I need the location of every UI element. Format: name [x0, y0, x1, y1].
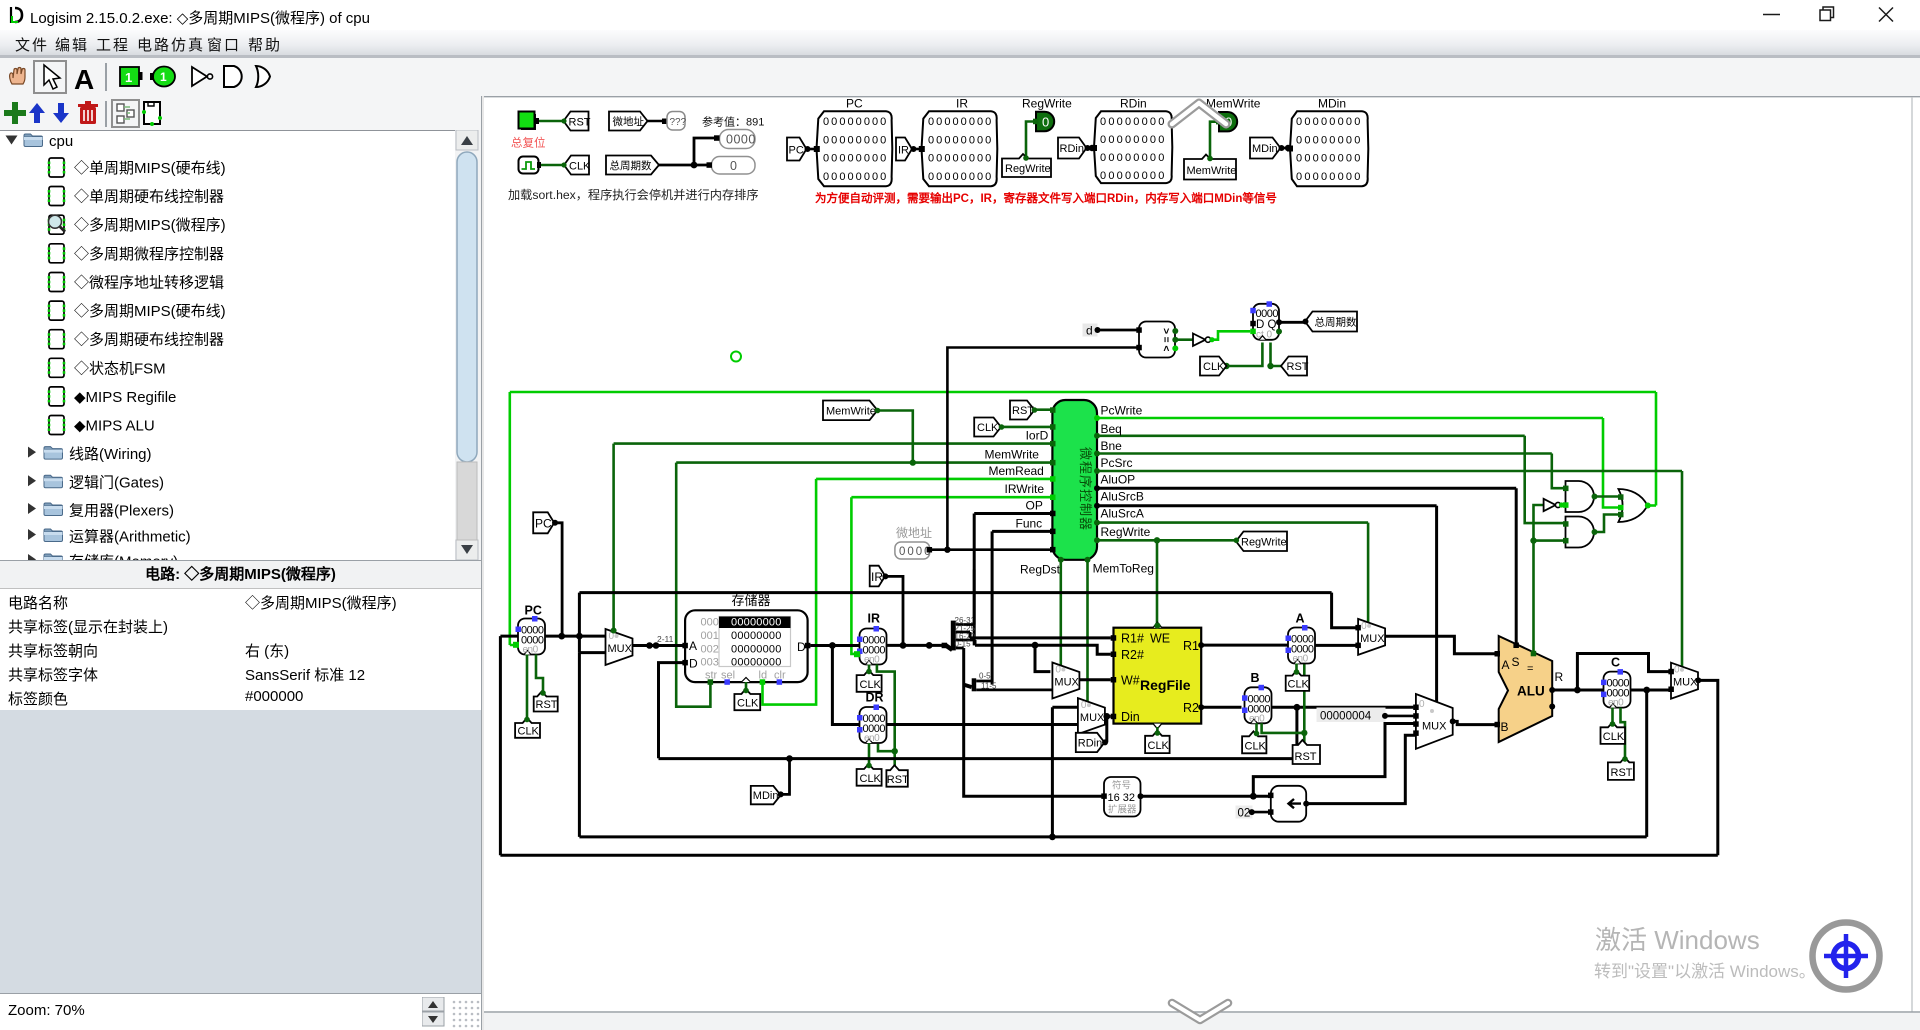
label CLK (controller): [1001, 426, 1052, 429]
svg-text:◇多周期硬布线控制器: ◇多周期硬布线控制器: [74, 332, 224, 349]
memory clk wire + label: [745, 682, 748, 694]
PC pin tunnel: [787, 138, 815, 161]
wire ALU = up to gates: [1534, 505, 1566, 654]
svg-text:PcWrite: PcWrite: [1101, 404, 1143, 418]
svg-text:00000000: 00000000: [928, 135, 993, 147]
svg-text:微地址: 微地址: [896, 526, 932, 540]
svg-text:逻辑门(Gates): 逻辑门(Gates): [69, 475, 164, 492]
svg-text:◇状态机FSM: ◇状态机FSM: [74, 360, 166, 377]
probe ???: [667, 112, 687, 131]
wire IR tunnel to IR row: [885, 576, 903, 645]
svg-text:OP: OP: [1026, 499, 1043, 513]
counter register: [1250, 301, 1279, 340]
svg-text:CLK: CLK: [1603, 731, 1625, 743]
wire AluSrcB (black, y506): [1097, 506, 1437, 702]
probe 0000: [720, 130, 756, 149]
svg-text:激活 Windows: 激活 Windows: [1595, 925, 1760, 955]
svg-text:RegDst: RegDst: [1020, 562, 1061, 576]
svg-text:A: A: [689, 639, 697, 653]
svg-text:总周期数: 总周期数: [610, 159, 652, 172]
svg-text:RDin: RDin: [1060, 143, 1084, 155]
memory pins: [682, 643, 688, 649]
svg-text:A: A: [1296, 612, 1305, 626]
svg-text:11-5: 11-5: [981, 682, 997, 691]
svg-text:WE: WE: [1150, 632, 1170, 646]
wire regwrite led: [1026, 122, 1036, 159]
NOT gate (counter): [1175, 338, 1193, 341]
wire R2 to B: [1201, 706, 1241, 709]
svg-text:AluOP: AluOP: [1101, 472, 1136, 486]
tree scrollbar: [455, 130, 481, 560]
CANVAS SVG: [484, 96, 1920, 1030]
wire uaddr row (black): [930, 348, 1139, 550]
wires cycle counter probes: [659, 138, 717, 165]
MDin display matrix: [1287, 111, 1368, 186]
svg-text:CLK: CLK: [1245, 741, 1267, 753]
svg-text:00000000: 00000000: [928, 153, 993, 165]
wire A out: [1315, 644, 1356, 647]
wire OP (black): [974, 514, 1052, 646]
svg-text:运算器(Arithmetic): 运算器(Arithmetic): [69, 528, 191, 546]
wire down to DR: [832, 646, 859, 725]
splitter2: [964, 685, 972, 688]
canvas frame: [484, 96, 1920, 1030]
wire DR out row: [887, 723, 1078, 726]
svg-text:CLK: CLK: [1148, 740, 1170, 752]
svg-text:0: 0: [730, 159, 737, 173]
svg-text:CLK: CLK: [977, 422, 999, 434]
wire MemRead (bright, y479) to memory ld: [763, 479, 1053, 705]
label CLK (B): [1242, 731, 1266, 754]
tunnel 总周期数: [606, 156, 659, 175]
mux W# (RegDst): [1052, 663, 1079, 699]
wire IR out row: [887, 644, 946, 647]
svg-text:A: A: [1502, 658, 1510, 672]
svg-text:复用器(Plexers): 复用器(Plexers): [69, 502, 174, 520]
wire PcWrite-enable loop (bright, y392): [510, 392, 1656, 645]
label RST (counter): [1271, 343, 1282, 367]
svg-text:转到"设置"以激活 Windows。: 转到"设置"以激活 Windows。: [1594, 962, 1816, 981]
label RST (pc): [534, 690, 558, 711]
svg-text:001: 001: [701, 630, 719, 642]
svg-text:00000000: 00000000: [823, 171, 888, 183]
svg-text:0000: 0000: [726, 133, 756, 147]
sign extender: [1104, 777, 1141, 817]
svg-text:RST: RST: [887, 774, 909, 786]
d input: [1083, 324, 1098, 337]
wire PcWrite out to OR (bright, y418): [1097, 418, 1620, 508]
wire mem D input from bus758: [659, 663, 686, 759]
svg-text:00000000: 00000000: [1100, 170, 1167, 182]
svg-text:参考值：891: 参考值：891: [702, 115, 764, 129]
svg-text:0: 0: [1419, 699, 1425, 710]
NOT gate (gates): [1544, 499, 1556, 511]
svg-text:CLK: CLK: [737, 698, 759, 710]
wire Cmux out loop (busQ): [500, 636, 1717, 855]
svg-text:IR: IR: [956, 97, 968, 111]
svg-text:Beq: Beq: [1101, 422, 1122, 436]
svg-text:◆MIPS Regifile: ◆MIPS Regifile: [74, 389, 176, 406]
svg-text:CLK: CLK: [860, 773, 882, 785]
wire RegWrite (dark, y540): [1097, 540, 1236, 627]
wire AluOP (black, y488): [1097, 488, 1516, 646]
svg-text:AluSrcB: AluSrcB: [1101, 490, 1144, 504]
svg-text:加载sort.hex，程序执行会停机并进行内存排序: 加载sort.hex，程序执行会停机并进行内存排序: [508, 187, 759, 202]
svg-text:RDin: RDin: [1078, 738, 1102, 750]
svg-text:00000000: 00000000: [823, 135, 888, 147]
label RST (DR): [886, 765, 909, 787]
svg-text:=: =: [1527, 663, 1533, 675]
wire mux out to mem A: [633, 644, 688, 647]
menu bar: [0, 30, 1920, 55]
OR gate: [1618, 489, 1647, 522]
IR/DR en-RST green chain: [877, 665, 895, 771]
svg-text:RST: RST: [1611, 767, 1633, 779]
svg-text:MemRead: MemRead: [989, 464, 1044, 478]
svg-text:存储器: 存储器: [732, 593, 771, 608]
B clk + en wires: [1257, 662, 1305, 745]
svg-text:W#: W#: [1121, 674, 1140, 688]
label RegWrite: [1002, 154, 1051, 177]
wire C out: [1631, 690, 1671, 837]
wire R1 to A: [1201, 644, 1288, 647]
controller pin name texts: [985, 404, 1154, 577]
ALU: [1499, 636, 1564, 742]
wire Amux out to ALU A: [1385, 636, 1496, 654]
svg-text:RST: RST: [1287, 361, 1309, 373]
svg-text:16 32: 16 32: [1108, 792, 1136, 804]
RDin display matrix: [1091, 111, 1172, 183]
label CLK (pc): [515, 717, 540, 738]
wire Wmux out: [1079, 678, 1110, 681]
wire to probe: [648, 120, 667, 122]
tunnel IR: [870, 566, 889, 587]
shifter: [1271, 786, 1306, 822]
svg-text:=: =: [1160, 337, 1171, 343]
top chevron overlay: [1172, 103, 1226, 124]
label CLK: [561, 156, 591, 175]
wire Beq (dark, y436): [1097, 436, 1568, 523]
svg-text:MDin: MDin: [1318, 97, 1346, 111]
svg-text:◇多周期微程序控制器: ◇多周期微程序控制器: [74, 246, 224, 263]
svg-text:R1#: R1#: [1121, 632, 1144, 646]
microprogram controller: [1052, 400, 1097, 560]
bottom chevron overlay: [1172, 1003, 1228, 1020]
controller right pin dots: [1094, 415, 1100, 421]
svg-text:IR: IR: [868, 612, 881, 626]
mux B4: [1416, 694, 1453, 749]
svg-text:RST: RST: [1295, 751, 1317, 763]
svg-text:总周期数: 总周期数: [1315, 316, 1357, 329]
svg-text:D: D: [689, 657, 698, 671]
svg-text:B: B: [1501, 720, 1509, 734]
svg-text:RST: RST: [1012, 405, 1034, 417]
AND gate 2: [1566, 517, 1595, 548]
svg-text:PC: PC: [525, 604, 542, 618]
svg-text:微地址: 微地址: [613, 115, 645, 128]
wire Dinmux in1 vertical to busP: [1052, 707, 1078, 837]
wire field 21-25 to R1#: [969, 632, 1111, 638]
wire field 16-20 to R2#: [975, 640, 1111, 654]
comparator: [1139, 322, 1175, 358]
svg-text:RegWrite: RegWrite: [1241, 537, 1287, 549]
label RST (A/B): [1293, 740, 1320, 764]
svg-text:00000000: 00000000: [1296, 171, 1363, 183]
wire PC clk rst: [527, 655, 543, 720]
label MemWrite: [1184, 155, 1236, 180]
svg-text:00000000: 00000000: [731, 657, 782, 669]
svg-text:R2#: R2#: [1121, 648, 1144, 662]
stray green circle: [731, 352, 741, 362]
svg-text:RegWrite: RegWrite: [1022, 97, 1072, 111]
svg-text:Func: Func: [1016, 516, 1043, 530]
label RDin (regfile): [1076, 733, 1108, 752]
svg-text:MemWrite: MemWrite: [1206, 97, 1261, 111]
svg-text:◇多周期MIPS(硬布线): ◇多周期MIPS(硬布线): [74, 303, 226, 320]
wire PC tunnel down: [554, 523, 562, 636]
svg-text:IRWrite: IRWrite: [1005, 482, 1045, 496]
svg-text:线路(Wiring): 线路(Wiring): [69, 446, 152, 463]
wire Bmux out to ALU B: [1453, 721, 1497, 724]
svg-text:RegWrite: RegWrite: [1101, 525, 1151, 539]
svg-text:◇单周期MIPS(硬布线): ◇单周期MIPS(硬布线): [74, 160, 226, 177]
wire B out row + loop: [659, 707, 1414, 758]
toolbars: [0, 58, 1920, 96]
svg-text:MemWrite: MemWrite: [985, 447, 1040, 461]
wire Func (black): [992, 531, 1052, 684]
svg-text:00000000: 00000000: [823, 116, 888, 128]
svg-text:微程序控制器: 微程序控制器: [1078, 447, 1093, 531]
svg-text:???: ???: [670, 117, 687, 128]
svg-text:00000000: 00000000: [823, 153, 888, 165]
wire counter Q out: [1279, 321, 1306, 324]
svg-text:AluSrcA: AluSrcA: [1101, 506, 1144, 520]
wire ALU R to C: [1552, 654, 1673, 691]
svg-text:d: d: [1086, 324, 1093, 338]
svg-text:RST: RST: [536, 699, 558, 711]
svg-text:00000000: 00000000: [928, 116, 993, 128]
svg-text:0-15: 0-15: [955, 640, 972, 649]
reset input pin: [519, 112, 540, 131]
mux PC: [606, 629, 633, 665]
svg-text:RegFile: RegFile: [1140, 677, 1191, 693]
probe 0: [712, 157, 756, 175]
svg-text:cpu: cpu: [49, 133, 73, 150]
wire rst: [539, 120, 564, 123]
svg-text:A: A: [74, 64, 94, 95]
svg-text:S: S: [1512, 655, 1520, 669]
RegFile clk wire + label: [1156, 727, 1159, 736]
svg-text:00000000: 00000000: [731, 617, 782, 629]
A clk wire + label: [1295, 664, 1298, 676]
svg-text:扩展器: 扩展器: [1108, 804, 1137, 816]
svg-text:DR: DR: [866, 691, 884, 705]
svg-text:IR: IR: [898, 145, 909, 157]
svg-text:PC: PC: [789, 145, 804, 157]
svg-text:2-11: 2-11: [657, 634, 674, 644]
svg-text:CLK: CLK: [518, 726, 540, 738]
svg-text:PC: PC: [535, 517, 552, 531]
wire RegDst drop: [1060, 560, 1063, 666]
svg-text:02: 02: [1238, 808, 1251, 820]
svg-text:003: 003: [701, 657, 719, 669]
AND gate 1: [1566, 481, 1595, 512]
svg-text:00000000: 00000000: [731, 643, 782, 655]
controller bottom pins: [1058, 557, 1064, 563]
svg-text:0: 0: [1042, 115, 1049, 130]
svg-text:00000000: 00000000: [1296, 135, 1363, 147]
svg-text:ALU: ALU: [1517, 684, 1545, 699]
wire IRWrite (bright, y497) to IR.en: [851, 497, 1052, 654]
circuit header + properties: [0, 560, 481, 589]
svg-text:R: R: [1555, 670, 1564, 684]
svg-text:符号: 符号: [1112, 780, 1131, 792]
svg-text:RST: RST: [569, 117, 591, 129]
svg-text:00000004: 00000004: [1320, 711, 1372, 723]
wire mem D out row y645.5: [810, 644, 859, 647]
svg-text:为方便自动评测，需要输出PC，IR，寄存器文件写入端口RDi: 为方便自动评测，需要输出PC，IR，寄存器文件写入端口RDin，内存写入端口MD…: [815, 191, 1277, 205]
svg-text:MemWrite: MemWrite: [1187, 165, 1237, 177]
svg-text:总复位: 总复位: [511, 136, 546, 150]
svg-text:<: <: [1160, 345, 1171, 351]
svg-text:00000000: 00000000: [1296, 116, 1363, 128]
svg-text:C: C: [1611, 656, 1620, 670]
title bar: [0, 0, 1920, 30]
mux Din (MemToReg): [1078, 698, 1105, 734]
label CLK (counter): [1227, 343, 1263, 367]
label RST (C): [1608, 756, 1634, 780]
svg-text:00000000: 00000000: [731, 630, 782, 642]
svg-text:Bne: Bne: [1101, 439, 1123, 453]
left tree panel: [0, 130, 481, 560]
svg-text:0-5: 0-5: [979, 672, 991, 681]
svg-text:◆MIPS ALU: ◆MIPS ALU: [74, 418, 155, 435]
mux A: [1358, 619, 1385, 655]
wire AluSrcA (dark, y523): [1097, 523, 1368, 623]
IR pin tunnel: [896, 138, 921, 161]
svg-text:R2: R2: [1183, 701, 1199, 715]
svg-text:000: 000: [701, 617, 719, 629]
wire to Wmux in1: [1035, 645, 1050, 671]
const 02: [1236, 806, 1253, 819]
label RST (controller): [1034, 408, 1052, 411]
svg-text:◇多周期MIPS(微程序): ◇多周期MIPS(微程序): [74, 217, 226, 234]
wire signext out: [1141, 724, 1416, 797]
wire PcSrc (dark, y471): [1097, 471, 1682, 667]
svg-text:00000000: 00000000: [1296, 153, 1363, 165]
wire field 0-15 down to signext: [964, 648, 1102, 796]
svg-text:MDin: MDin: [1252, 143, 1278, 155]
PC display matrix: [814, 97, 893, 187]
mux C (PcSrc): [1671, 663, 1698, 699]
svg-text:IorD: IorD: [1026, 428, 1049, 442]
svg-text:CLK: CLK: [1288, 679, 1310, 691]
svg-text:◇单周期硬布线控制器: ◇单周期硬布线控制器: [74, 189, 224, 206]
C clk + en wires: [1613, 708, 1626, 763]
svg-text:RDin: RDin: [1120, 97, 1147, 111]
svg-text:PcSrc: PcSrc: [1101, 456, 1133, 470]
label MDin (bottom): [781, 759, 790, 795]
wire PC row y636: [500, 636, 605, 653]
tunnel 总周期数 (counter): [1303, 312, 1358, 332]
svg-text:MemToReg: MemToReg: [1093, 562, 1154, 576]
svg-text:Din: Din: [1121, 710, 1140, 724]
bus P (C result): [579, 653, 1646, 837]
svg-text:CLK: CLK: [1203, 361, 1225, 373]
splitter IR fields: [946, 645, 953, 650]
svg-text:00000000: 00000000: [928, 171, 993, 183]
PC tunnel mid: [533, 512, 558, 533]
controller left pin squares: [1050, 407, 1056, 552]
const 00000004: [1317, 708, 1386, 723]
DR clk wire + label: [868, 743, 871, 769]
clock input: [519, 157, 542, 174]
wire OP field up: [964, 570, 975, 625]
RegFile: [1114, 622, 1202, 729]
tunnel RegWrite: [1234, 532, 1288, 552]
svg-text:00000000: 00000000: [1100, 134, 1167, 146]
svg-text:>: >: [1160, 328, 1171, 334]
wire Bne (dark, y453.5): [1097, 454, 1568, 489]
svg-text:IR: IR: [871, 570, 883, 584]
svg-text:MUX: MUX: [1422, 721, 1447, 733]
label CLK (C): [1601, 721, 1626, 744]
wire MemToReg drop: [1086, 560, 1089, 702]
wire MemWrite row (dark, y462.6): [676, 463, 1052, 707]
label RST: [561, 112, 590, 131]
tunnel 微地址: [609, 112, 648, 131]
wire shifter out to Bmux4: [1306, 735, 1416, 803]
IR display matrix: [919, 97, 998, 187]
svg-text:CLK: CLK: [860, 679, 882, 691]
svg-text:1: 1: [160, 70, 167, 84]
svg-text:PC: PC: [846, 97, 863, 111]
svg-text:00000000: 00000000: [1100, 116, 1167, 128]
svg-text:RegWrite: RegWrite: [1005, 163, 1051, 175]
IR clk wire + label: [868, 665, 871, 676]
svg-text:◇微程序地址转移逻辑: ◇微程序地址转移逻辑: [74, 275, 224, 292]
svg-text:002: 002: [701, 643, 719, 655]
svg-text:R1: R1: [1183, 639, 1199, 653]
svg-text:00000000: 00000000: [1100, 152, 1167, 164]
svg-text:MDin: MDin: [753, 790, 779, 802]
svg-text:CLK: CLK: [569, 161, 591, 173]
svg-text:1: 1: [125, 70, 132, 85]
svg-text:MemWrite: MemWrite: [826, 406, 876, 418]
wire Dinmux out + RDin: [1105, 716, 1111, 742]
svg-text:D: D: [797, 640, 806, 654]
tunnel MemWrite + stub: [877, 411, 913, 463]
svg-text:B: B: [1251, 671, 1260, 685]
wire IorD (dark, y443.6) to PC-mux sel: [614, 444, 1053, 632]
wire clk: [541, 164, 564, 167]
bus nextpc y592.6: [579, 593, 1358, 653]
